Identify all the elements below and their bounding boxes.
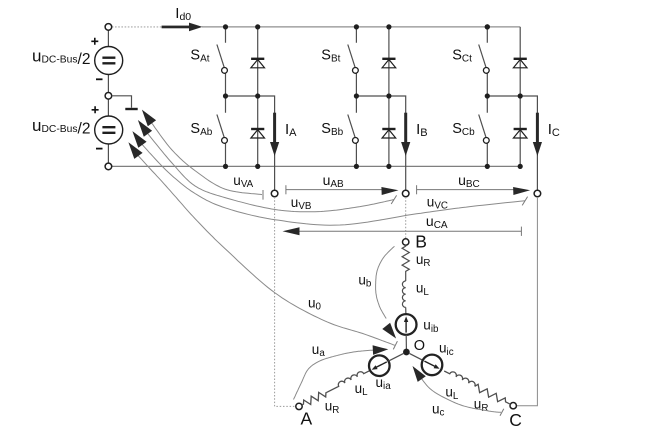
node phase terminal A [271, 190, 278, 197]
switch SCb blade [479, 115, 486, 138]
load terminal C node [510, 403, 516, 409]
switch SCt contact [483, 68, 489, 74]
tick uVA [262, 190, 264, 200]
source uia [369, 355, 390, 376]
node DC midpoint M [105, 93, 112, 100]
wire top DC+ rail [202, 26, 520, 28]
svg-text:O: O [414, 338, 425, 354]
measure line uBC [417, 185, 531, 195]
svg-text:IC: IC [548, 121, 560, 139]
wire left DC column [107, 27, 109, 167]
diode DAt [251, 59, 265, 68]
arrow head ub [382, 323, 396, 339]
current arrow IB [401, 113, 410, 156]
diode DCt [513, 59, 527, 68]
svg-text:uDC-Bus/2: uDC-Bus/2 [32, 46, 90, 68]
svg-text:uia: uia [376, 375, 392, 392]
svg-text:uR: uR [474, 397, 489, 414]
arrow head uc [413, 366, 426, 382]
svg-text:uAB: uAB [323, 172, 344, 190]
svg-text:A: A [301, 408, 313, 428]
switch SCt blade [479, 45, 486, 68]
svg-text:SBb: SBb [321, 121, 343, 138]
label - of U1 [96, 78, 103, 80]
wire diode column leg B [388, 27, 390, 167]
svg-text:C: C [509, 410, 522, 430]
svg-text:uCA: uCA [426, 213, 448, 231]
node phase terminal B [402, 190, 409, 197]
wire branch B to source [405, 307, 407, 314]
node DC top-left terminal [105, 24, 112, 31]
svg-text:Id0: Id0 [175, 5, 191, 23]
label + of U1 [91, 38, 98, 45]
resistor uR branch C [473, 383, 512, 407]
wire phase A drop (dotted) [275, 197, 296, 406]
wire diode column leg C [519, 27, 521, 167]
junction dots leg A [223, 24, 260, 169]
wire diode column leg A [257, 27, 259, 167]
svg-text:uVB: uVB [291, 195, 312, 212]
source uic [422, 355, 443, 376]
wire top rail corner to C diode [519, 26, 521, 28]
diode DBt [382, 59, 396, 68]
wire phase rail leg A [226, 96, 275, 190]
wire O to source uic [410, 354, 423, 361]
current arrow IA [270, 113, 279, 156]
svg-text:uc: uc [432, 401, 445, 418]
measure curve ub [376, 246, 395, 318]
switch SAb blade [217, 115, 224, 138]
svg-text:uic: uic [439, 341, 454, 358]
svg-text:u0: u0 [308, 296, 322, 313]
svg-text:uVA: uVA [233, 173, 253, 190]
measure line uCA [283, 227, 522, 236]
measure curve ua [294, 350, 374, 399]
svg-text:B: B [415, 232, 427, 252]
arrow head uVC [132, 131, 146, 148]
svg-text:IA: IA [285, 121, 297, 139]
node DC bottom-left terminal [105, 163, 112, 170]
wire branch B mid [405, 272, 407, 281]
label - of U2 [96, 148, 103, 150]
inductor uL branch C [444, 368, 476, 386]
source U1 uDC-Bus/2 upper [95, 47, 123, 75]
svg-text:uR: uR [325, 399, 340, 416]
current arrow Id0 [162, 23, 203, 32]
tick uVB [391, 195, 396, 204]
tick u0 [393, 341, 397, 349]
svg-text:uR: uR [416, 252, 431, 269]
wire top DC+ rail dotted segment [112, 26, 162, 28]
inductor uL branch B [402, 281, 405, 307]
svg-text:uib: uib [423, 318, 439, 335]
svg-text:ua: ua [312, 342, 326, 359]
svg-text:SCb: SCb [452, 121, 475, 138]
switch SAt contact [222, 68, 228, 74]
svg-text:SBt: SBt [321, 48, 340, 65]
svg-text:ub: ub [358, 272, 372, 289]
load terminal B node [403, 239, 409, 245]
ground symbol [125, 108, 137, 110]
measure line uAB [286, 185, 399, 195]
wire phase rail leg B [356, 96, 405, 190]
node phase terminal C [534, 190, 541, 197]
switch SAb contact [222, 138, 228, 144]
diode DBb [382, 129, 396, 138]
measure curve uVB [147, 133, 394, 212]
svg-text:SAt: SAt [190, 48, 209, 65]
svg-text:uL: uL [355, 381, 369, 398]
wire source uib to O [405, 335, 407, 349]
svg-text:IB: IB [416, 121, 428, 139]
arrow head u0 [128, 142, 142, 159]
label + of U2 [92, 106, 99, 113]
switch SBt contact [353, 68, 359, 74]
svg-text:uVC: uVC [427, 194, 448, 211]
svg-text:SCt: SCt [452, 48, 472, 65]
svg-text:uBC: uBC [458, 172, 480, 190]
arrow head uVB [138, 120, 152, 137]
switch SBb blade [348, 115, 355, 138]
tick uVC [522, 197, 527, 206]
svg-text:uL: uL [416, 281, 430, 298]
wire midpoint to ground [112, 96, 132, 108]
wire bottom DC- rail [108, 165, 520, 167]
diode DCb [513, 129, 527, 138]
switch SBb contact [353, 138, 359, 144]
measure curve uVC [142, 144, 525, 225]
arrow head uVA [142, 110, 156, 127]
source uib [396, 314, 417, 335]
resistor uR branch A [300, 389, 328, 408]
inductor uL branch A [325, 367, 370, 392]
node O [403, 349, 410, 356]
wire phase rail leg C [487, 96, 537, 190]
wire switch column leg C [486, 27, 488, 167]
wire phase C return [517, 197, 538, 406]
measure curve u0 [138, 155, 395, 345]
switch SCb contact [483, 138, 489, 144]
wire switch column leg B [355, 27, 357, 167]
load terminal A node [296, 403, 302, 409]
switch SAt blade [217, 45, 224, 68]
measure curve uc [421, 379, 501, 413]
source U2 uDC-Bus/2 lower [95, 116, 123, 144]
wire source uia to O [389, 354, 404, 362]
wire phase B drop (dotted) [405, 197, 407, 239]
measure curve uVA [151, 123, 262, 195]
resistor uR branch B [402, 245, 409, 272]
diode DAb [251, 129, 265, 138]
svg-text:SAb: SAb [190, 121, 212, 138]
current arrow IC [533, 113, 542, 156]
switch SBt blade [348, 45, 355, 68]
junction dots leg B [354, 24, 392, 169]
wire switch column leg A [225, 27, 227, 167]
junction dots leg C [485, 24, 523, 169]
arrow head ua [373, 345, 389, 355]
tick uc [500, 409, 504, 416]
svg-text:uDC-Bus/2: uDC-Bus/2 [32, 116, 90, 138]
